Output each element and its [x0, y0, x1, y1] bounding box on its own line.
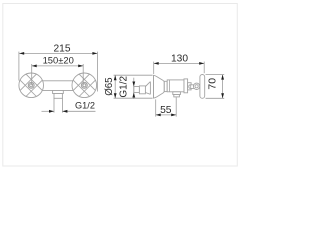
dim 70 extension bottom: [206, 97, 225, 99]
svg-text:70: 70: [207, 78, 219, 90]
dim 215 line: [19, 52, 97, 54]
spoke end face line: [190, 85, 192, 88]
body cylinder: [167, 80, 184, 92]
right handle outer circle: [72, 73, 97, 98]
dim 130 line: [154, 62, 205, 64]
svg-text:55: 55: [160, 105, 172, 116]
dim G1/2 side arrow bottom: [132, 93, 135, 98]
dim 150 line: [32, 65, 83, 67]
dim G1/2 front extension right: [61, 98, 63, 112]
collar: [164, 81, 167, 91]
svg-text:Ø65: Ø65: [104, 77, 115, 95]
dim 70 arrow top: [221, 75, 224, 80]
dim 150 arrow right: [78, 65, 83, 68]
dim 130 arrow right: [199, 62, 204, 65]
svg-text:150±20: 150±20: [43, 54, 74, 65]
ring collar: [184, 79, 188, 93]
dim 55 extension left: [155, 99, 157, 116]
svg-text:215: 215: [54, 43, 71, 54]
dim O65 arrow top: [114, 75, 117, 80]
dim 55 arrow left: [156, 114, 161, 117]
outlet stub (front): [54, 94, 62, 99]
right handle cross chords: [73, 74, 95, 96]
dim 70 line: [222, 75, 224, 99]
handle vertical bar (side): [200, 75, 205, 99]
dim G1/2 front arrow left: [49, 110, 54, 113]
dim G1/2 front arrow right: [62, 110, 67, 113]
union cone: [145, 82, 150, 95]
border frame: [3, 4, 238, 167]
dim G1/2 front line left segment: [42, 110, 55, 112]
outlet nut (front): [53, 91, 64, 94]
left handle hub: [28, 82, 34, 88]
left handle outer circle: [19, 73, 44, 98]
side outlet lower: [174, 95, 180, 97]
dim O65 line: [114, 75, 116, 98]
dim 215 arrow left: [19, 52, 24, 55]
dim 55 line: [156, 114, 177, 116]
body seam: [169, 80, 171, 92]
dim 130 arrow left: [154, 62, 159, 65]
escutcheon rim line: [153, 75, 155, 98]
dim 150 extension left: [31, 64, 33, 85]
dim 215 arrow right: [92, 52, 97, 55]
dim O65 extension top: [114, 74, 153, 76]
dim 215 extension right: [96, 52, 98, 92]
dim G1/2 side arrow top: [132, 82, 135, 87]
dim O65 arrow bottom: [114, 93, 117, 98]
dim 130 extension right: [203, 62, 205, 74]
neck: [188, 83, 192, 90]
dim 150 arrow left: [32, 65, 37, 68]
dim G1/2 side line: [133, 78, 135, 99]
right handle hub: [81, 82, 87, 88]
svg-text:G1/2: G1/2: [119, 76, 130, 98]
dim 70 arrow bottom: [221, 93, 224, 98]
svg-text:G1/2: G1/2: [75, 101, 95, 111]
dim 70 extension top: [206, 74, 225, 76]
inlet pipe stub: [134, 87, 140, 93]
side outlet upper: [173, 92, 181, 95]
dim 150 extension right: [82, 64, 84, 85]
union nut: [139, 86, 145, 94]
left handle cross chords: [20, 74, 42, 96]
dim G1/2 front line right segment: [62, 110, 95, 112]
dim G1/2 front extension left: [53, 98, 55, 112]
escutcheon cone (wall flange): [154, 75, 165, 98]
dim 215 extension left: [18, 52, 20, 81]
dim 55 extension right: [175, 97, 177, 116]
handle hub (side): [193, 83, 199, 89]
handle spoke (side, pointing left): [189, 85, 197, 89]
dim O65 extension bottom: [114, 97, 153, 99]
svg-text:130: 130: [171, 53, 188, 64]
dim 130 extension left: [153, 62, 155, 74]
body bar: [31, 81, 85, 91]
dim 55 arrow right: [171, 114, 176, 117]
